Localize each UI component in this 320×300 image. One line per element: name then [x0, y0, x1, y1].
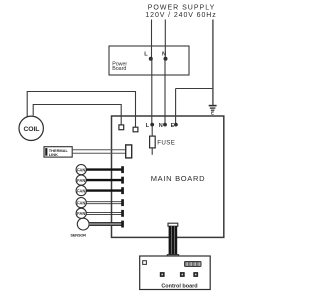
- terminal dot Lo: [150, 123, 154, 127]
- svg-text:N: N: [159, 123, 163, 129]
- wire fan M4 lower: [86, 203, 122, 205]
- wire sensor lower edge: [89, 224, 122, 226]
- ground symbol E: [209, 106, 217, 116]
- ribbon cable: [169, 226, 178, 255]
- svg-text:COIL: COIL: [23, 126, 39, 133]
- svg-text:FUSE: FUSE: [157, 139, 175, 146]
- wire N supply drop: [164, 20, 166, 59]
- wire fan M3: [86, 189, 122, 191]
- terminal dot N (power board): [164, 57, 168, 61]
- thermal link TL1: [44, 147, 72, 157]
- pin bar J6: [121, 210, 124, 217]
- fuse F1: [150, 136, 156, 148]
- terminal dot Eo: [174, 123, 178, 127]
- svg-text:MAIN BOARD: MAIN BOARD: [151, 174, 206, 183]
- svg-text:L: L: [144, 52, 148, 58]
- pin bar J4: [121, 187, 124, 194]
- wire fan M4 upper: [86, 201, 122, 203]
- pad P3 (control board): [180, 272, 185, 277]
- wire earth branch horizontal: [176, 88, 213, 90]
- svg-text:E: E: [171, 123, 175, 129]
- wire sensor band: [89, 222, 122, 225]
- pad P2 (control board): [160, 272, 165, 277]
- pin bar J7: [121, 221, 124, 228]
- wire L to main board: [151, 59, 153, 124]
- wire thermal link bottom: [72, 152, 126, 154]
- wire earth branch to Eo: [175, 89, 177, 125]
- coil terminal square left: [119, 125, 124, 130]
- control board U2: [140, 256, 211, 290]
- wire fan M2: [86, 179, 122, 181]
- svg-text:N: N: [162, 52, 166, 58]
- svg-text:FAN: FAN: [77, 211, 85, 216]
- fan M1: [76, 165, 86, 175]
- fan M3: [76, 186, 86, 196]
- ribbon connector top: [168, 223, 178, 226]
- coil wire inner: [33, 105, 121, 126]
- wire N to main board: [164, 59, 166, 124]
- svg-text:Control board: Control board: [161, 283, 197, 289]
- pin bar J5: [121, 199, 124, 206]
- wire fan M1: [86, 168, 122, 170]
- svg-text:E: E: [211, 111, 214, 116]
- pad P4 (control board): [193, 272, 198, 277]
- square pad P1 (control board): [143, 261, 147, 265]
- svg-text:FAN: FAN: [77, 200, 85, 205]
- svg-text:POWER SUPPLY: POWER SUPPLY: [148, 5, 216, 12]
- main board U1: [112, 116, 224, 237]
- fan M5: [76, 208, 86, 218]
- terminal dot No: [163, 123, 167, 127]
- ribbon connector bottom: [167, 255, 178, 259]
- sensor S1: [77, 218, 89, 230]
- svg-text:FAN: FAN: [77, 188, 85, 193]
- pin bar J2: [121, 166, 124, 173]
- wire E supply drop: [212, 20, 214, 105]
- svg-text:LINK: LINK: [49, 152, 58, 157]
- connector J8 (control board): [184, 261, 202, 267]
- fan M2: [76, 175, 86, 185]
- wire Lo to fuse: [151, 126, 153, 136]
- svg-text:SENSOR: SENSOR: [70, 233, 86, 238]
- power board: [109, 46, 189, 75]
- pin bar J3: [121, 177, 124, 184]
- wire fan M5 upper: [86, 211, 122, 213]
- wire thermal link top: [72, 149, 126, 151]
- svg-text:FAN: FAN: [77, 178, 85, 183]
- coil terminal square right: [133, 127, 138, 132]
- wire L supply drop: [151, 20, 153, 59]
- wire fan M5 lower: [86, 213, 122, 215]
- terminal dot L (power board): [149, 57, 153, 61]
- wire below fuse: [151, 148, 153, 155]
- connector J1 thermal link: [126, 145, 132, 158]
- coil wire outer: [27, 92, 135, 128]
- svg-text:Board: Board: [112, 66, 126, 72]
- coil L1: [19, 116, 43, 140]
- wire sensor upper edge: [89, 222, 122, 224]
- svg-text:FAN: FAN: [77, 167, 85, 172]
- svg-text:120V / 240V 60Hz: 120V / 240V 60Hz: [145, 12, 216, 19]
- fan M4: [76, 198, 86, 208]
